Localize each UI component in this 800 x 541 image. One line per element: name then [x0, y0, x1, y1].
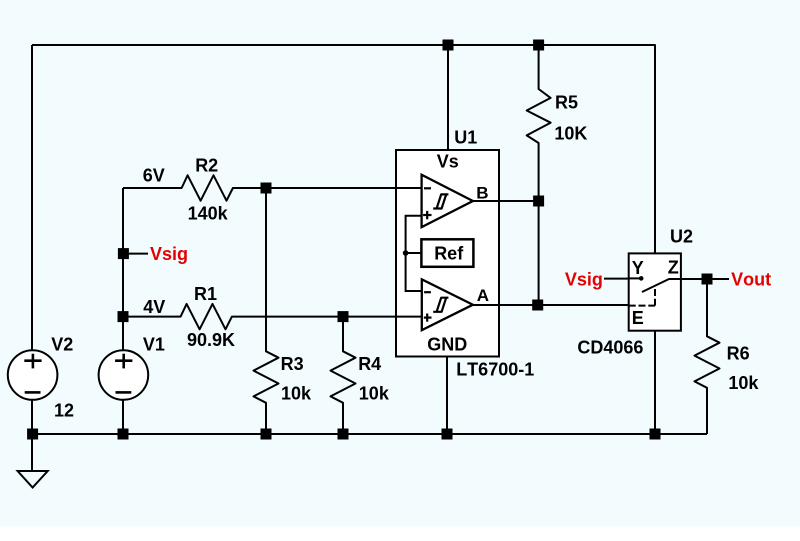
svg-text:R1: R1 — [194, 284, 217, 304]
svg-text:LT6700-1: LT6700-1 — [456, 360, 534, 380]
svg-text:V2: V2 — [51, 334, 73, 354]
svg-text:R5: R5 — [555, 93, 578, 113]
svg-text:12: 12 — [54, 400, 74, 420]
svg-text:Vsig: Vsig — [565, 270, 603, 290]
svg-text:10k: 10k — [359, 384, 390, 404]
svg-text:R3: R3 — [281, 354, 304, 374]
svg-text:4V: 4V — [143, 297, 165, 317]
svg-text:E: E — [632, 308, 644, 328]
svg-text:R2: R2 — [195, 155, 218, 175]
svg-text:V1: V1 — [143, 334, 165, 354]
svg-text:Ref: Ref — [434, 244, 464, 264]
svg-text:GND: GND — [427, 335, 467, 355]
svg-text:140k: 140k — [188, 204, 229, 224]
svg-text:10K: 10K — [554, 124, 587, 144]
svg-text:U2: U2 — [670, 227, 693, 247]
svg-text:90.9K: 90.9K — [187, 330, 235, 350]
svg-text:R4: R4 — [358, 354, 381, 374]
svg-text:U1: U1 — [454, 128, 477, 148]
svg-text:B: B — [476, 183, 488, 202]
svg-text:10k: 10k — [728, 373, 759, 393]
svg-text:10k: 10k — [281, 384, 312, 404]
svg-text:R6: R6 — [727, 344, 750, 364]
svg-text:Y: Y — [632, 258, 644, 278]
svg-text:Vs: Vs — [437, 152, 459, 172]
svg-text:A: A — [477, 286, 489, 305]
svg-text:Vout: Vout — [731, 270, 771, 290]
svg-text:Z: Z — [668, 258, 679, 278]
svg-text:CD4066: CD4066 — [577, 338, 643, 358]
svg-text:6V: 6V — [143, 166, 165, 186]
svg-text:Vsig: Vsig — [150, 244, 188, 264]
